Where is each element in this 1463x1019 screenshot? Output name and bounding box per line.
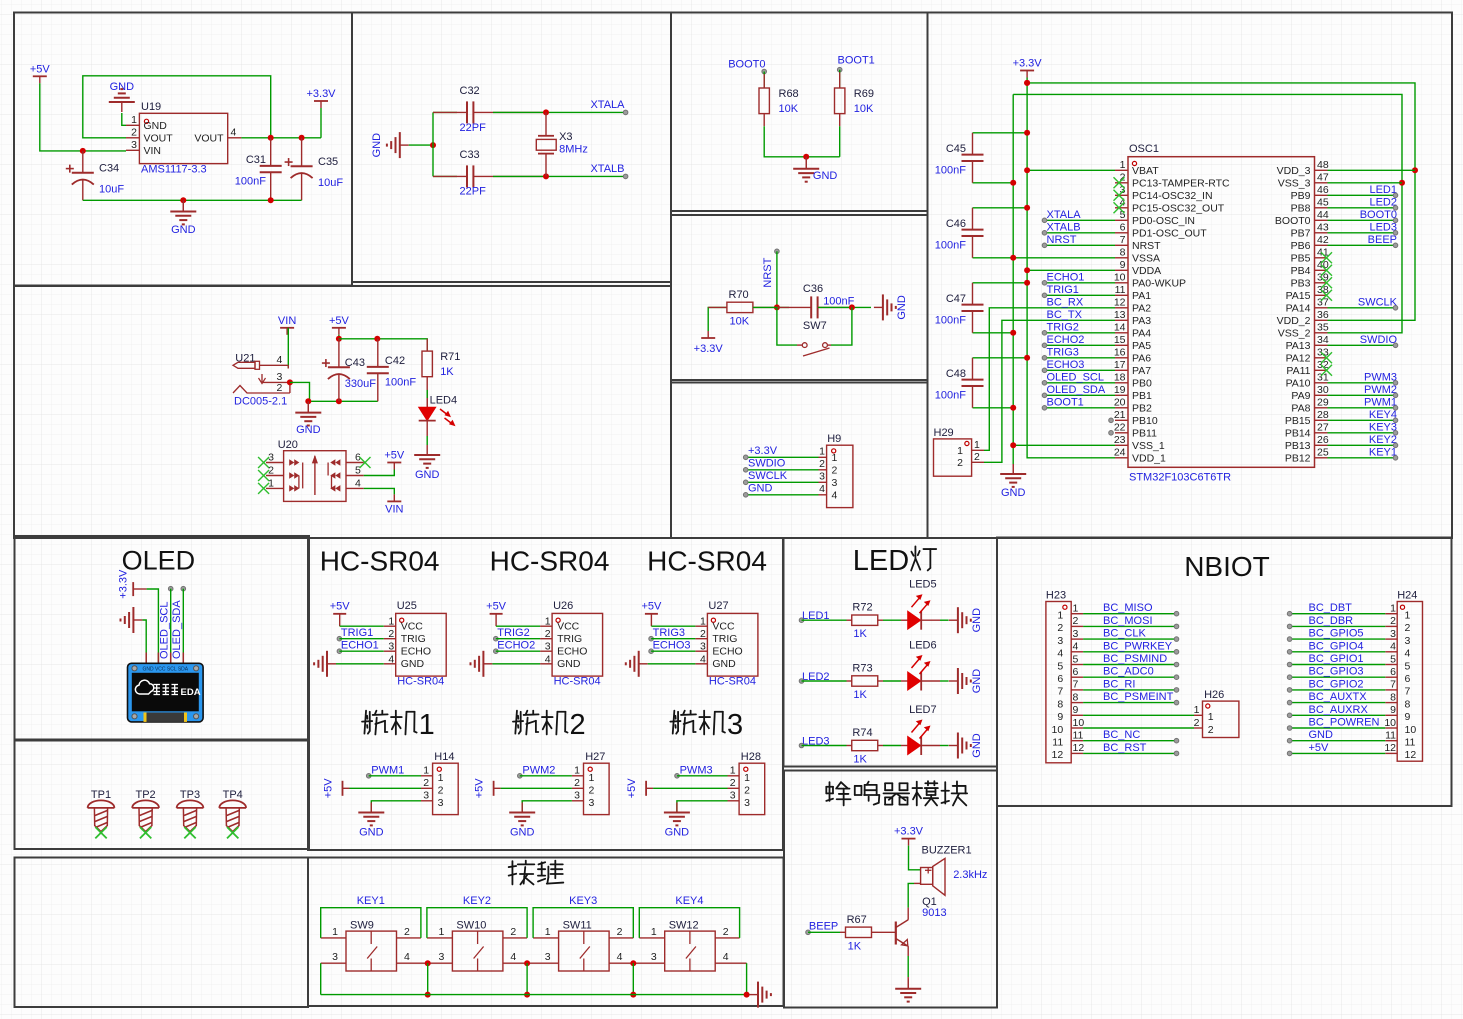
wire bbox=[1083, 676, 1176, 678]
svg-text:3: 3 bbox=[131, 139, 137, 151]
svg-text:E: E bbox=[869, 545, 888, 577]
svg-text:10K: 10K bbox=[779, 103, 799, 115]
svg-text:3: 3 bbox=[438, 797, 444, 809]
svg-text:3: 3 bbox=[1057, 635, 1063, 647]
svg-text:GND: GND bbox=[971, 608, 983, 633]
power flag VIN bbox=[387, 500, 401, 502]
svg-text:12: 12 bbox=[1384, 742, 1396, 754]
svg-text:1: 1 bbox=[574, 765, 580, 777]
port TRIG2 bbox=[1042, 331, 1047, 336]
svg-text:3: 3 bbox=[439, 951, 445, 963]
wire bbox=[940, 619, 949, 621]
junction bbox=[630, 960, 636, 966]
port OLED_SDA bbox=[181, 586, 186, 591]
wire bbox=[364, 488, 395, 494]
wire bbox=[1328, 244, 1396, 246]
svg-text:OLED_SCL: OLED_SCL bbox=[158, 602, 170, 659]
svg-text:ECHO: ECHO bbox=[557, 646, 587, 658]
svg-text:0: 0 bbox=[578, 546, 594, 577]
svg-text:T: T bbox=[1253, 551, 1270, 582]
svg-text:GND VCC SCL SDA: GND VCC SCL SDA bbox=[142, 667, 188, 673]
svg-text:BC_GPIO2: BC_GPIO2 bbox=[1309, 678, 1364, 690]
wire bbox=[1083, 714, 1194, 716]
wire bbox=[1328, 394, 1396, 396]
port BC_AUXTX bbox=[1287, 700, 1292, 705]
svg-text:20: 20 bbox=[1114, 397, 1126, 409]
svg-text:LED5: LED5 bbox=[909, 579, 937, 591]
pin 47 VSS_3 bbox=[1315, 182, 1328, 184]
svg-text:GND: GND bbox=[296, 424, 321, 436]
wire bbox=[639, 908, 739, 938]
svg-text:BC_PSMEINT: BC_PSMEINT bbox=[1103, 691, 1174, 703]
pin 3 H23 bbox=[1071, 638, 1083, 640]
svg-text:17: 17 bbox=[1114, 359, 1126, 371]
svg-text:GND: GND bbox=[557, 658, 581, 670]
wire bbox=[1328, 207, 1396, 209]
ground bbox=[295, 412, 321, 414]
svg-text:U19: U19 bbox=[141, 101, 161, 113]
svg-text:PA14: PA14 bbox=[1286, 303, 1311, 315]
pin 2 H24 bbox=[1385, 625, 1397, 627]
pin 39 PB3 bbox=[1315, 282, 1328, 284]
svg-text:H: H bbox=[320, 546, 340, 577]
pin 27 PB14 bbox=[1315, 432, 1328, 434]
port BC_DBR bbox=[1287, 624, 1292, 629]
node C47 top bbox=[1024, 280, 1030, 286]
crystal X3 8MHz bbox=[545, 112, 547, 135]
wire bbox=[142, 620, 146, 663]
wire bbox=[122, 113, 126, 125]
wire bbox=[526, 963, 528, 994]
svg-text:PB0: PB0 bbox=[1132, 378, 1152, 390]
svg-text:GND: GND bbox=[712, 658, 736, 670]
svg-text:GND: GND bbox=[1309, 729, 1334, 741]
wire bbox=[533, 908, 633, 938]
pin 12 H24 bbox=[1385, 752, 1397, 754]
svg-text:SW12: SW12 bbox=[669, 920, 699, 932]
wire bbox=[753, 306, 789, 308]
wire bbox=[1045, 232, 1116, 234]
wire bbox=[1328, 169, 1416, 171]
svg-text:2: 2 bbox=[744, 785, 750, 797]
connector H28 bbox=[739, 763, 765, 814]
svg-text:PA11: PA11 bbox=[1286, 365, 1310, 377]
svg-text:PA10: PA10 bbox=[1286, 378, 1311, 390]
wire bbox=[763, 72, 765, 89]
svg-text:OLED_SCL: OLED_SCL bbox=[1047, 371, 1104, 383]
svg-text:1: 1 bbox=[651, 926, 657, 938]
capacitor C48 bbox=[972, 358, 974, 380]
port ECHO1 bbox=[1042, 281, 1047, 286]
svg-text:KEY1: KEY1 bbox=[1369, 446, 1397, 458]
svg-text:10: 10 bbox=[1384, 717, 1396, 729]
svg-text:S: S bbox=[369, 546, 388, 577]
svg-text:24: 24 bbox=[1114, 447, 1126, 459]
svg-text:R69: R69 bbox=[854, 88, 874, 100]
wire bbox=[1328, 432, 1396, 434]
svg-text:GND: GND bbox=[748, 483, 773, 495]
svg-text:100nF: 100nF bbox=[935, 164, 966, 176]
no-connect U20 pin 3 bbox=[258, 457, 269, 468]
svg-text:+3.3V: +3.3V bbox=[694, 343, 724, 355]
svg-text:BOOT1: BOOT1 bbox=[838, 55, 875, 67]
wire bbox=[1027, 269, 1115, 271]
port XTALB bbox=[623, 174, 628, 179]
svg-text:HC-SR04: HC-SR04 bbox=[554, 676, 601, 688]
node GND/jack bbox=[305, 398, 311, 404]
svg-text:1: 1 bbox=[423, 765, 429, 777]
ground bbox=[805, 157, 807, 169]
svg-text:PB8: PB8 bbox=[1291, 203, 1311, 215]
wire bbox=[1013, 444, 1115, 446]
power flag +5V bbox=[332, 327, 346, 329]
port BC_GPIO1 bbox=[1287, 662, 1292, 667]
wire bbox=[1328, 344, 1396, 346]
svg-text:2: 2 bbox=[1390, 615, 1396, 627]
svg-text:GND: GND bbox=[371, 133, 383, 158]
port SWCLK bbox=[1393, 306, 1398, 311]
svg-text:8: 8 bbox=[1073, 691, 1079, 703]
svg-text:25: 25 bbox=[1317, 447, 1329, 459]
node XTALB bbox=[543, 173, 549, 179]
svg-text:ECHO1: ECHO1 bbox=[341, 640, 379, 652]
pin 4 PC15-OSC32_OUT bbox=[1115, 207, 1128, 209]
wire bbox=[350, 787, 422, 789]
sensor U25 HC-SR04 bbox=[396, 613, 447, 676]
pin 23 VSS_1 bbox=[1115, 444, 1128, 446]
power flag VIN bbox=[280, 327, 294, 329]
connector H14 bbox=[433, 763, 459, 814]
port +3.3V bbox=[743, 455, 748, 460]
port XTALB bbox=[1042, 231, 1047, 236]
pin 12 H23 bbox=[1071, 752, 1083, 754]
svg-text:1: 1 bbox=[1073, 603, 1079, 615]
wire bbox=[802, 745, 847, 747]
capacitor C46 bbox=[972, 208, 974, 230]
ground bbox=[1000, 473, 1026, 475]
svg-text:VSS_3: VSS_3 bbox=[1278, 178, 1311, 190]
port BC_RI bbox=[1174, 688, 1179, 693]
node XTALA bbox=[543, 109, 549, 115]
svg-text:PA4: PA4 bbox=[1132, 328, 1151, 340]
ground bbox=[957, 607, 959, 633]
svg-text:PWM3: PWM3 bbox=[1364, 371, 1397, 383]
pin 3 H24 bbox=[1385, 638, 1397, 640]
svg-text:-: - bbox=[530, 546, 539, 577]
svg-text:N: N bbox=[1184, 551, 1204, 582]
pin 1 H24 bbox=[1385, 613, 1397, 615]
no-connect U20 pin 6 bbox=[360, 457, 371, 468]
svg-text:BC_GPIO5: BC_GPIO5 bbox=[1309, 628, 1364, 640]
node 3.3 rail top bbox=[1024, 80, 1030, 86]
capacitor C42 bbox=[377, 339, 379, 367]
svg-text:3: 3 bbox=[388, 641, 394, 653]
svg-text:22: 22 bbox=[1114, 422, 1126, 434]
svg-text:8: 8 bbox=[1057, 698, 1063, 710]
svg-text:2: 2 bbox=[574, 777, 580, 789]
wire bbox=[1290, 651, 1386, 653]
svg-text:-: - bbox=[360, 546, 369, 577]
svg-text:4: 4 bbox=[277, 354, 283, 366]
svg-text:7: 7 bbox=[1120, 234, 1126, 246]
wire bbox=[1290, 740, 1386, 742]
svg-text:3: 3 bbox=[700, 641, 706, 653]
pin 24 VDD_1 bbox=[1115, 457, 1128, 459]
wire bbox=[522, 801, 572, 813]
pin 3 PC14-OSC32_IN bbox=[1115, 194, 1128, 196]
junction bbox=[524, 960, 530, 966]
svg-text:3: 3 bbox=[545, 951, 551, 963]
port BC_GPIO2 bbox=[1287, 688, 1292, 693]
svg-text:2: 2 bbox=[730, 777, 736, 789]
ground bbox=[358, 812, 384, 814]
svg-text:4: 4 bbox=[723, 951, 729, 963]
connector H9 bbox=[827, 445, 853, 507]
node key rail bbox=[524, 992, 530, 998]
wire bbox=[746, 494, 819, 496]
svg-text:BC_AUXTX: BC_AUXTX bbox=[1309, 691, 1368, 703]
svg-text:2: 2 bbox=[617, 926, 623, 938]
ground bbox=[757, 982, 759, 1008]
ground bbox=[482, 651, 484, 677]
svg-text:PWM2: PWM2 bbox=[1364, 384, 1397, 396]
svg-text:VCC: VCC bbox=[401, 621, 424, 633]
power flag +5V bbox=[493, 781, 495, 796]
pin 43 PB7 bbox=[1315, 232, 1328, 234]
power flag +5V bbox=[33, 75, 47, 77]
port BC_MISO bbox=[1174, 611, 1179, 616]
wire bbox=[984, 320, 1115, 462]
pin 42 PB6 bbox=[1315, 244, 1328, 246]
node C46 bottom bbox=[1010, 255, 1016, 261]
pin 7 H23 bbox=[1071, 689, 1083, 691]
port PWM2 bbox=[518, 774, 523, 779]
svg-text:BC_MOSI: BC_MOSI bbox=[1103, 615, 1153, 627]
svg-text:PWM1: PWM1 bbox=[371, 764, 404, 776]
svg-text:TRIG: TRIG bbox=[712, 633, 737, 645]
wire bbox=[433, 111, 457, 113]
ground bbox=[307, 401, 309, 412]
port TRIG3 bbox=[1042, 356, 1047, 361]
wire bbox=[1045, 407, 1116, 409]
wire bbox=[1045, 344, 1116, 346]
wire bbox=[746, 481, 819, 483]
svg-text:+5V: +5V bbox=[330, 600, 351, 612]
svg-text:3: 3 bbox=[744, 797, 750, 809]
svg-text:28: 28 bbox=[1317, 409, 1329, 421]
power flag +3.3V bbox=[132, 582, 134, 596]
wire bbox=[1328, 232, 1396, 234]
ground bbox=[793, 168, 819, 170]
svg-text:GND: GND bbox=[359, 826, 384, 838]
svg-text:2: 2 bbox=[277, 382, 283, 394]
svg-text:8: 8 bbox=[1405, 698, 1411, 710]
svg-text:3: 3 bbox=[589, 797, 595, 809]
svg-text:H24: H24 bbox=[1397, 590, 1417, 602]
no-connect U20 pin 1 bbox=[258, 483, 269, 494]
svg-text:BC_POWREN: BC_POWREN bbox=[1309, 717, 1380, 729]
wire bbox=[1083, 752, 1176, 754]
svg-text:VOUT: VOUT bbox=[144, 133, 174, 145]
svg-text:BC_DBR: BC_DBR bbox=[1309, 615, 1354, 627]
wire bbox=[493, 111, 626, 113]
svg-text:4: 4 bbox=[819, 483, 825, 495]
resistor R69 bbox=[839, 72, 841, 88]
svg-text:1: 1 bbox=[1194, 704, 1200, 716]
junction bbox=[425, 960, 431, 966]
port ECHO1 bbox=[337, 649, 342, 654]
port BC_PSMIND bbox=[1174, 662, 1179, 667]
svg-text:LED2: LED2 bbox=[1369, 196, 1397, 208]
svg-text:R74: R74 bbox=[852, 727, 872, 739]
svg-text:44: 44 bbox=[1317, 209, 1329, 221]
wire bbox=[1290, 613, 1386, 615]
wire bbox=[1328, 182, 1403, 184]
svg-text:5: 5 bbox=[1405, 660, 1411, 672]
wire bbox=[40, 83, 126, 151]
wire bbox=[241, 137, 321, 139]
section title keys bbox=[511, 861, 513, 884]
svg-text:46: 46 bbox=[1317, 184, 1329, 196]
port PWM3 bbox=[1393, 381, 1398, 386]
svg-text:PB4: PB4 bbox=[1291, 265, 1311, 277]
svg-text:100nF: 100nF bbox=[935, 239, 966, 251]
power flag +5V bbox=[645, 781, 647, 796]
svg-text:10: 10 bbox=[1114, 272, 1126, 284]
pin 34 PA13 bbox=[1315, 344, 1328, 346]
svg-text:L: L bbox=[853, 545, 869, 577]
power flag +3.3V bbox=[1020, 70, 1034, 72]
pin 20 PB2 bbox=[1115, 407, 1128, 409]
svg-text:+5V: +5V bbox=[323, 778, 335, 799]
svg-text:U25: U25 bbox=[397, 600, 417, 612]
svg-text:1: 1 bbox=[974, 439, 980, 451]
svg-text:PWM3: PWM3 bbox=[680, 764, 713, 776]
svg-text:1K: 1K bbox=[853, 628, 867, 640]
svg-text:10uF: 10uF bbox=[318, 177, 343, 189]
svg-text:C43: C43 bbox=[345, 357, 365, 369]
node VSS_3 bbox=[1399, 180, 1405, 186]
wire bbox=[1328, 194, 1396, 196]
svg-text:15: 15 bbox=[1114, 334, 1126, 346]
port KEY1 bbox=[1393, 456, 1398, 461]
svg-text:OLED_SDA: OLED_SDA bbox=[1047, 384, 1106, 396]
no-connect TP4 bbox=[227, 827, 238, 838]
pin 16 PA6 bbox=[1115, 357, 1128, 359]
svg-text:PB1: PB1 bbox=[1132, 390, 1152, 402]
svg-text:KEY2: KEY2 bbox=[1369, 434, 1397, 446]
svg-text:VSS_1: VSS_1 bbox=[1132, 440, 1165, 452]
no-connect pin 33 bbox=[1321, 352, 1332, 363]
section title servo 1 bbox=[364, 711, 366, 734]
switch U20 bbox=[284, 451, 346, 502]
svg-text:PA13: PA13 bbox=[1286, 340, 1311, 352]
svg-text:BC_MISO: BC_MISO bbox=[1103, 602, 1153, 614]
svg-text:C33: C33 bbox=[460, 149, 480, 161]
port pin 21 bbox=[1109, 418, 1114, 423]
svg-text:SW7: SW7 bbox=[803, 320, 827, 332]
svg-text:L: L bbox=[143, 545, 158, 575]
node C46 top bbox=[1024, 205, 1030, 211]
svg-text:1: 1 bbox=[744, 772, 750, 784]
svg-text:7: 7 bbox=[1390, 679, 1396, 691]
svg-text:4: 4 bbox=[545, 653, 551, 665]
svg-text:0: 0 bbox=[736, 546, 752, 577]
wire bbox=[1328, 407, 1396, 409]
port TRIG2 bbox=[494, 636, 499, 641]
svg-text:VCC: VCC bbox=[557, 621, 580, 633]
svg-text:OLED_SDA: OLED_SDA bbox=[171, 600, 183, 659]
wire bbox=[1083, 689, 1176, 691]
svg-text:11: 11 bbox=[1073, 730, 1084, 742]
svg-text:PB6: PB6 bbox=[1291, 240, 1311, 252]
svg-text:9: 9 bbox=[1120, 259, 1126, 271]
no-connect U20 pin 2 bbox=[258, 470, 269, 481]
svg-text:+5V: +5V bbox=[641, 600, 662, 612]
wire bbox=[973, 357, 1028, 359]
port LED1 bbox=[1393, 193, 1398, 198]
port BC_ADC0 bbox=[1174, 675, 1179, 680]
wire bbox=[427, 908, 527, 938]
wire bbox=[831, 307, 852, 345]
pin 8 H23 bbox=[1071, 702, 1083, 704]
svg-text:4: 4 bbox=[231, 127, 237, 139]
svg-text:BC_RST: BC_RST bbox=[1103, 742, 1147, 754]
svg-text:4: 4 bbox=[1057, 648, 1063, 660]
svg-text:KEY1: KEY1 bbox=[357, 895, 385, 907]
pin 10 H23 bbox=[1071, 727, 1083, 729]
wire bbox=[338, 335, 340, 339]
wire bbox=[1083, 625, 1176, 627]
wire bbox=[940, 680, 949, 682]
svg-text:21: 21 bbox=[1114, 409, 1126, 421]
wire bbox=[1083, 664, 1176, 666]
node VOUT/C35 bbox=[299, 135, 305, 141]
svg-text:GND: GND bbox=[171, 224, 196, 236]
svg-text:2: 2 bbox=[1057, 622, 1063, 634]
svg-text:+5V: +5V bbox=[626, 778, 638, 799]
node VDD_3 bbox=[1412, 167, 1418, 173]
wire bbox=[973, 207, 1028, 209]
ground bbox=[1012, 464, 1014, 474]
section title buzzer bbox=[826, 786, 833, 788]
svg-text:8: 8 bbox=[1120, 247, 1126, 259]
svg-text:4: 4 bbox=[1073, 641, 1079, 653]
port BC_NC bbox=[1174, 738, 1179, 743]
svg-text:47: 47 bbox=[1317, 172, 1329, 184]
svg-text:BC_PSMIND: BC_PSMIND bbox=[1103, 653, 1167, 665]
wire bbox=[973, 332, 1014, 334]
svg-text:1: 1 bbox=[1120, 159, 1126, 171]
MCU OSC1 STM32F103C6T6TR bbox=[1128, 157, 1315, 468]
svg-text:10K: 10K bbox=[730, 315, 750, 327]
svg-text:BC_AUXRX: BC_AUXRX bbox=[1309, 704, 1369, 716]
svg-text:LED3: LED3 bbox=[1369, 221, 1397, 233]
power flag +5V bbox=[645, 613, 658, 615]
svg-text:PA15: PA15 bbox=[1286, 290, 1311, 302]
svg-text:SWDIO: SWDIO bbox=[1360, 334, 1398, 346]
svg-text:AMS1117-3.3: AMS1117-3.3 bbox=[141, 164, 207, 176]
port KEY4 bbox=[1393, 418, 1398, 423]
wire bbox=[1328, 219, 1396, 221]
svg-text:STM32F103C6T6TR: STM32F103C6T6TR bbox=[1129, 471, 1231, 483]
connector H23 bbox=[1046, 602, 1071, 763]
svg-text:ECHO3: ECHO3 bbox=[1047, 359, 1085, 371]
pin 4 H9 bbox=[819, 494, 827, 496]
svg-text:H27: H27 bbox=[585, 751, 605, 763]
svg-text:PC15-OSC32_OUT: PC15-OSC32_OUT bbox=[1132, 203, 1225, 215]
svg-text:6: 6 bbox=[1120, 222, 1126, 234]
